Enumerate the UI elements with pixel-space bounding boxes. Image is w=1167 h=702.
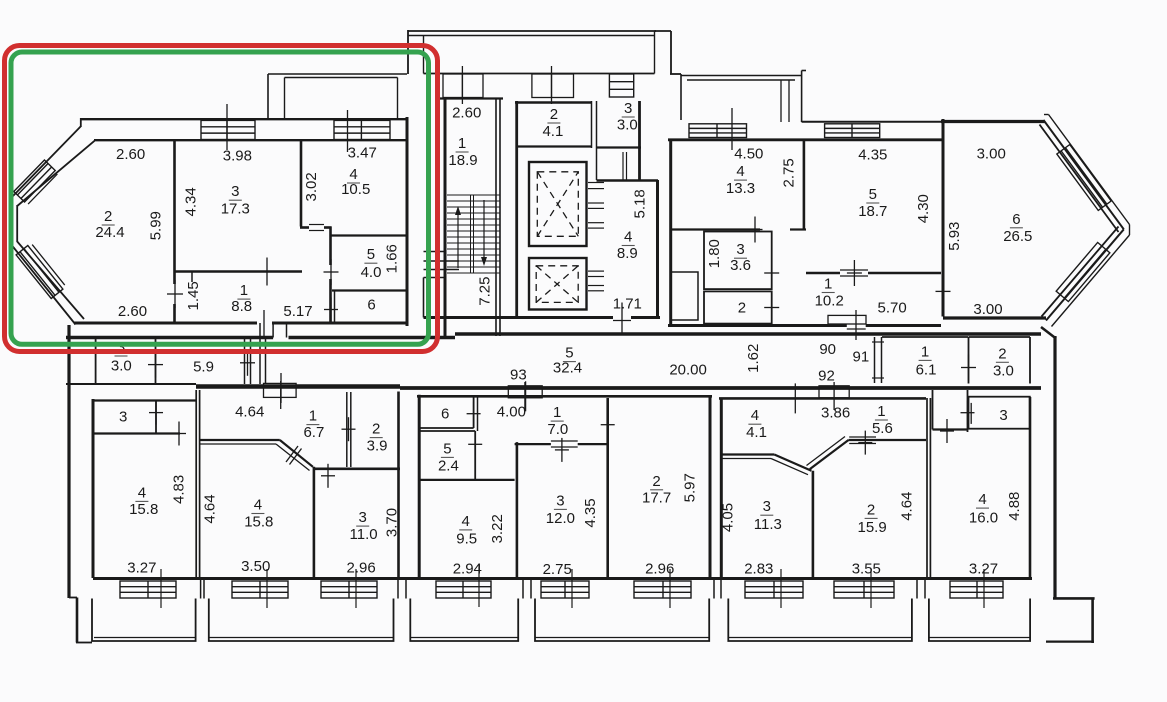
svg-text:4.35: 4.35 <box>858 147 887 164</box>
svg-text:13.3: 13.3 <box>726 180 755 197</box>
window tick 2.83 <box>780 569 782 608</box>
svg-text:4.00: 4.00 <box>497 404 526 421</box>
machine room bottom wall <box>517 145 592 147</box>
svg-text:3.27: 3.27 <box>127 560 156 577</box>
apartment A bay lower outer diagonal <box>12 246 76 325</box>
step wall between apartment B wall and room6 wall <box>942 119 945 142</box>
door tick room 6 B <box>942 278 944 304</box>
apartment A right outer wall <box>406 117 409 326</box>
room 17.7 door tick <box>607 413 609 437</box>
svg-text:5.97: 5.97 <box>681 473 698 502</box>
dim tick room 3.6 door <box>771 260 773 286</box>
svg-text:4.50: 4.50 <box>734 146 763 163</box>
window of room 3 on top wall <box>201 120 255 139</box>
svg-text:2.75: 2.75 <box>543 561 572 578</box>
svg-text:3.22: 3.22 <box>489 514 506 543</box>
svg-text:4.83: 4.83 <box>170 475 187 504</box>
window above stair room 3.0 <box>609 74 633 97</box>
dim tick small room3 <box>946 419 948 443</box>
room 2.4 bottom wall <box>419 479 515 481</box>
corridor top wall right section <box>455 332 1041 335</box>
room 2.4 tick <box>474 432 476 456</box>
window tick 2.96 apt3 <box>669 569 671 608</box>
room 3.0 corridor divider <box>155 339 157 384</box>
elevator hall right wall upper <box>638 101 641 180</box>
roof step to balcony B <box>670 73 681 75</box>
room 6 bay apex outer cap <box>1129 225 1131 236</box>
window tick 3.27 apt5 <box>983 569 985 608</box>
wall between rooms 2 and 3 line a <box>591 101 593 148</box>
apartment 1 | 2 divider wall double <box>195 390 197 578</box>
door tick room 4 B <box>754 217 756 243</box>
balcony divider double line <box>780 80 782 122</box>
svg-text:3.6: 3.6 <box>730 257 751 274</box>
svg-text:5: 5 <box>443 440 451 457</box>
left outer wall below apartment A <box>67 325 70 598</box>
svg-text:5.17: 5.17 <box>283 303 312 320</box>
room 6 bay outer offset upper <box>1049 115 1130 225</box>
entrance porch box 1 <box>443 74 483 98</box>
door tick room 5 <box>330 259 332 285</box>
apartment 3 entry tick <box>525 381 527 411</box>
wall between 12.0 and 17.7 <box>606 398 609 578</box>
window tick 3.50 <box>266 569 268 608</box>
svg-text:3: 3 <box>736 241 744 258</box>
apartment 4 entry tick <box>794 383 796 413</box>
bottom wall of bottom apartments <box>93 577 1032 580</box>
room 6 apt3 right wall <box>473 396 475 428</box>
porch 2 tick <box>551 66 553 104</box>
passage tick <box>967 401 969 425</box>
svg-text:1.45: 1.45 <box>185 281 202 310</box>
apartment A bay left inner edge <box>16 205 18 242</box>
corridor bottom wall apartment2 segment thick <box>196 384 400 389</box>
svg-text:18.9: 18.9 <box>448 152 477 169</box>
svg-text:3.0: 3.0 <box>111 358 132 375</box>
balcony divider walls c <box>522 580 524 599</box>
elevator 2 X diagonal b <box>536 266 578 303</box>
window tick 2.75 <box>571 569 573 608</box>
svg-text:15.8: 15.8 <box>244 514 273 531</box>
roof outline top double line <box>408 30 656 32</box>
room 5 / room 6 divider <box>332 289 406 291</box>
apartment 3 right wall <box>709 396 712 578</box>
svg-text:10.5: 10.5 <box>341 181 370 198</box>
balcony divider walls d <box>713 580 715 599</box>
right outer wall step <box>1053 597 1095 600</box>
window 2.94 apt3 <box>436 581 491 598</box>
room 2 3.0 right wall <box>1029 337 1031 384</box>
window tick 3.27 apt1 <box>160 569 162 608</box>
wall right of room6 apt3 <box>477 396 479 431</box>
door tick room 5 B <box>853 260 855 286</box>
svg-text:3.02: 3.02 <box>303 172 320 201</box>
room 3.0 bottom wall <box>596 146 641 148</box>
stair block door tick <box>621 303 623 333</box>
window 3.55 apt4 <box>834 581 894 598</box>
room 2.4 right wall <box>474 431 476 480</box>
room 2 3.0 top wall <box>969 336 1031 338</box>
apartment B balcony top inner <box>687 79 795 81</box>
svg-text:3: 3 <box>624 100 632 117</box>
svg-text:3.27: 3.27 <box>969 561 998 578</box>
room 12.0 top wall <box>515 443 551 445</box>
apartment 4 top wall <box>719 397 926 400</box>
svg-text:1.66: 1.66 <box>384 244 401 273</box>
window of balcony wall room 4 <box>334 120 390 139</box>
svg-text:1.71: 1.71 <box>613 296 642 313</box>
roof bottom line <box>424 73 655 75</box>
apartment A bay lower inner diagonal <box>17 242 84 320</box>
svg-text:1.80: 1.80 <box>706 239 723 268</box>
svg-text:4.34: 4.34 <box>182 187 199 216</box>
svg-text:8.9: 8.9 <box>617 245 638 262</box>
elevator hall right wall lower <box>656 180 659 319</box>
right outer wall <box>1053 336 1056 598</box>
apartment B left wall <box>669 140 672 327</box>
svg-text:6: 6 <box>1012 211 1020 228</box>
balcony box left edge <box>284 78 286 120</box>
corridor wall below room 4 right part <box>324 226 332 229</box>
svg-text:91: 91 <box>853 348 870 365</box>
svg-text:2: 2 <box>738 300 746 317</box>
balcony box top inner line <box>285 77 398 79</box>
wall between room 3 and room 4 <box>300 140 303 227</box>
svg-text:4: 4 <box>138 484 146 501</box>
svg-text:2: 2 <box>867 501 875 518</box>
svg-text:4: 4 <box>751 407 759 424</box>
porch tick apartment 2 <box>280 381 282 409</box>
apartment A top-left corner jog <box>80 118 82 127</box>
svg-text:5.18: 5.18 <box>632 189 649 218</box>
svg-text:5.9: 5.9 <box>193 358 214 375</box>
svg-text:2.60: 2.60 <box>118 303 147 320</box>
window 3.50 apt2 <box>232 581 288 598</box>
elevator 2 X diagonal a <box>536 266 578 303</box>
svg-text:4.30: 4.30 <box>915 194 932 223</box>
apartment 4 right wall double <box>926 398 928 578</box>
roof outline right segment <box>655 30 672 32</box>
svg-text:2.94: 2.94 <box>453 560 482 577</box>
hallway door slash <box>286 446 298 462</box>
wall between room 2 and room 3 <box>173 140 176 271</box>
svg-text:4.88: 4.88 <box>1006 492 1023 521</box>
corridor top wall left section part b <box>289 336 456 339</box>
svg-text:1: 1 <box>240 282 248 299</box>
corridor bottom wall right segment <box>400 386 1041 390</box>
svg-text:32.4: 32.4 <box>553 360 582 377</box>
svg-text:2.4: 2.4 <box>438 458 459 475</box>
porch box apartment 4 entry <box>819 386 849 398</box>
balcony 4 <box>535 599 709 642</box>
svg-text:7.0: 7.0 <box>547 421 568 438</box>
svg-text:4: 4 <box>254 497 262 514</box>
apartment A entrance door tick <box>263 310 265 336</box>
svg-text:5: 5 <box>869 186 877 203</box>
door tick room 6 <box>330 298 332 322</box>
corridor division wall at 5.9 east side <box>259 336 261 384</box>
svg-text:3: 3 <box>231 183 239 200</box>
apartment 3 top wall <box>417 395 712 398</box>
room 3.9 bottom wall <box>314 467 400 470</box>
highlight green rounded rectangle <box>11 52 429 344</box>
svg-text:4: 4 <box>624 229 632 246</box>
svg-text:4: 4 <box>462 513 470 530</box>
room 5.6 window sill lines <box>849 436 876 438</box>
apartment A bay upper window ladder <box>14 160 55 202</box>
svg-text:3.0: 3.0 <box>993 362 1014 379</box>
svg-text:4.35: 4.35 <box>582 498 599 527</box>
porch tick apartment 4 <box>833 382 835 410</box>
room 5.9 right wall double <box>244 339 246 384</box>
elevator 2 shaft outer <box>529 258 587 310</box>
apartment A bay lower window outer hatch line <box>32 245 65 286</box>
apartment B balcony top outer <box>681 75 802 77</box>
svg-text:2: 2 <box>372 421 380 438</box>
stair stringer <box>470 195 472 273</box>
apartment B top wall <box>668 138 943 141</box>
room 12.0 door tick <box>561 438 563 462</box>
window tick room 4 13.3 <box>731 108 733 150</box>
svg-text:16.0: 16.0 <box>969 510 998 527</box>
porch box apartment 2 entry <box>264 383 297 397</box>
apartment 4 hallway vertical <box>812 471 815 577</box>
svg-text:3.47: 3.47 <box>348 145 377 162</box>
svg-text:4.64: 4.64 <box>201 494 218 523</box>
apartment1 room3 tick <box>155 401 157 425</box>
svg-text:2.96: 2.96 <box>346 560 375 577</box>
svg-text:3.00: 3.00 <box>973 301 1002 318</box>
wall between hall and room 6 <box>942 142 945 317</box>
svg-text:15.8: 15.8 <box>129 501 158 518</box>
svg-text:3: 3 <box>119 409 127 426</box>
stair arrow up <box>457 212 459 268</box>
balcony box right edge <box>397 78 399 120</box>
stair treads <box>447 194 500 196</box>
apartment B bottom wall right of door <box>866 324 941 327</box>
svg-text:3.98: 3.98 <box>223 148 252 165</box>
svg-text:2.60: 2.60 <box>452 105 481 122</box>
stair block bottom wall right of door <box>631 316 660 319</box>
svg-text:3.9: 3.9 <box>367 438 388 455</box>
room 6 apt3 tick <box>473 402 475 426</box>
corridor vertical wall below room5 door <box>329 279 332 323</box>
svg-text:8.8: 8.8 <box>231 298 252 315</box>
svg-text:3.70: 3.70 <box>384 508 401 537</box>
svg-text:1: 1 <box>877 403 885 420</box>
balcony divider walls a <box>200 580 202 599</box>
roof outline left edge <box>407 30 409 74</box>
room 4.1 wall diagonal <box>774 455 811 471</box>
window tick balcony wall <box>347 110 349 152</box>
svg-text:3.86: 3.86 <box>821 405 850 422</box>
svg-text:4.1: 4.1 <box>746 424 767 441</box>
wall stub above apartment A right corner <box>436 74 438 98</box>
balcony 1 bottom left <box>92 599 196 642</box>
door tick room3 to room1 <box>266 258 268 286</box>
room 6 bay upper window ladder <box>1057 145 1111 211</box>
window 2.96 apt2 <box>321 581 377 598</box>
room 6 bay outer offset lower <box>1052 235 1130 327</box>
corridor wall below room 4 left part <box>300 226 309 229</box>
apartment 1 room 3 bottom wall <box>93 432 180 434</box>
apartment 2 hallway wall horizontal <box>199 439 280 441</box>
svg-text:2.83: 2.83 <box>744 561 773 578</box>
room 3.9 left wall <box>346 392 348 467</box>
svg-text:2: 2 <box>998 345 1006 362</box>
svg-text:90: 90 <box>819 341 836 358</box>
svg-text:3: 3 <box>999 407 1007 424</box>
elevator 1 shaft outer <box>529 162 587 246</box>
window tick 2.94 <box>478 565 480 607</box>
room 12.0 left wall <box>516 442 519 578</box>
window 2.96 apt3 <box>634 581 691 598</box>
apartment A bay left outer edge <box>11 196 13 247</box>
balcony 3 <box>410 599 518 642</box>
apartment 2 hallway vertical <box>313 467 316 577</box>
entrance porch box 2 <box>532 74 574 98</box>
svg-text:2.96: 2.96 <box>645 560 674 577</box>
room 2 B box <box>704 291 772 323</box>
window 3.27 apt1 <box>120 581 176 598</box>
apartment1 wall tick horizontal <box>178 422 180 446</box>
apartment B balcony right edge <box>801 71 803 123</box>
svg-text:6: 6 <box>367 296 375 313</box>
room 6 bay lower outer diagonal <box>1046 229 1124 320</box>
balcony 2 <box>209 599 394 642</box>
highlight red rounded rectangle <box>5 46 438 352</box>
apartment 1 top wall <box>93 399 196 401</box>
svg-text:15.9: 15.9 <box>857 519 886 536</box>
door tick room 2 B <box>771 295 773 321</box>
wall below room 4 <box>671 228 760 230</box>
vestibule left wall <box>596 148 598 180</box>
svg-text:9.5: 9.5 <box>456 530 477 547</box>
door tick room 1 to room 2 <box>174 280 176 308</box>
svg-text:2.75: 2.75 <box>780 158 797 187</box>
porch box apartment 3 entry <box>508 386 542 398</box>
corridor top wall left section <box>66 336 273 339</box>
vestibule door tick <box>622 152 624 181</box>
room 3.9 door tick <box>348 417 350 441</box>
left corner outer wall step <box>69 597 77 599</box>
window tick room 3 <box>226 104 228 150</box>
svg-text:10.2: 10.2 <box>815 293 844 310</box>
svg-text:20.00: 20.00 <box>669 362 707 379</box>
apartment A bottom wall right of door <box>272 322 409 325</box>
apartment A bay upper inner diagonal <box>17 141 94 206</box>
svg-text:6.7: 6.7 <box>303 424 324 441</box>
hall wall apartment 5 <box>933 428 969 430</box>
window tick 3.55 <box>870 569 872 608</box>
room 3.9 bottom tick <box>327 464 329 488</box>
elevator 1 cabin dashed <box>537 172 578 237</box>
svg-text:3: 3 <box>556 492 564 509</box>
apartment B entrance porch box <box>828 315 866 324</box>
apartment B bottom wall left of door <box>668 324 847 327</box>
entrance steps rungs <box>424 251 446 253</box>
svg-text:11.3: 11.3 <box>754 516 782 533</box>
apartment 5 right wall <box>1029 397 1032 580</box>
apartment 3 left wall <box>418 395 421 578</box>
svg-text:18.7: 18.7 <box>858 203 887 220</box>
room 6.1 top wall <box>882 336 968 338</box>
svg-text:4: 4 <box>978 491 986 508</box>
wall between room 4 and room 5 <box>803 140 806 229</box>
svg-text:5.99: 5.99 <box>147 211 164 240</box>
room1 nook wall <box>191 272 193 283</box>
svg-text:4.1: 4.1 <box>542 123 563 140</box>
svg-text:5: 5 <box>367 246 375 263</box>
porch tick apartment 3 <box>524 382 526 410</box>
svg-text:2: 2 <box>550 106 558 123</box>
stair room top wall <box>437 97 503 99</box>
svg-text:92: 92 <box>818 367 835 384</box>
room6 top thin outer line <box>802 121 941 123</box>
room 5 top wall <box>330 234 406 236</box>
svg-text:2.60: 2.60 <box>116 146 145 163</box>
room 3 bottom wall <box>174 270 302 273</box>
svg-text:1: 1 <box>824 276 832 293</box>
wall between hall and room 5 horizontal <box>806 272 840 275</box>
machine room 2 top wall <box>515 101 592 104</box>
room 6.1 tick <box>968 355 970 381</box>
svg-text:4: 4 <box>736 163 744 180</box>
svg-text:5.6: 5.6 <box>872 420 893 437</box>
chute room box <box>671 272 698 320</box>
room5 door threshold <box>840 269 868 271</box>
svg-text:5.70: 5.70 <box>877 300 906 317</box>
apartment 2 entry tick <box>280 373 282 403</box>
svg-text:24.4: 24.4 <box>95 224 124 241</box>
stair arrow down <box>483 200 485 260</box>
stair block bottom wall left of door <box>424 316 614 319</box>
room 2.4 top wall <box>419 430 475 432</box>
hall step wall <box>597 179 659 182</box>
room 6 bay lower window ladder <box>1056 242 1110 301</box>
svg-text:1: 1 <box>309 408 317 425</box>
room 3.0 corridor box left wall <box>95 339 97 384</box>
elevator 2 door jamb marks <box>588 270 604 272</box>
svg-text:3.55: 3.55 <box>852 561 881 578</box>
svg-text:3: 3 <box>763 498 771 515</box>
window tick 2.96 apt2 <box>355 569 357 608</box>
balcony divider walls e <box>916 580 918 599</box>
svg-text:17.3: 17.3 <box>221 200 250 217</box>
room 4.1 wall horizontal <box>721 453 774 455</box>
balcony divider walls b <box>397 580 399 599</box>
apartment 1 left wall <box>92 399 95 578</box>
porch 1 divider <box>461 74 463 98</box>
apartment A top wall outer line <box>81 118 407 120</box>
room 6 left wall lower <box>334 291 336 324</box>
apartment 2 hallway diagonal <box>280 440 313 467</box>
svg-text:2: 2 <box>104 208 112 225</box>
apartment A bay upper window outer hatch line <box>28 174 57 204</box>
elevator 2 cabin dashed <box>536 266 578 303</box>
apartment 2 right wall <box>397 392 400 579</box>
wall room2/room1 lower part <box>173 271 176 284</box>
balcony above apartment A outer line <box>268 73 407 75</box>
svg-text:4.05: 4.05 <box>719 503 736 532</box>
room 6 bay upper outer diagonal <box>1044 120 1124 229</box>
svg-text:4.64: 4.64 <box>235 404 264 421</box>
stair room right wall double <box>495 98 497 336</box>
upper outline right of balcony <box>802 70 806 72</box>
porch 1 tick <box>461 66 463 104</box>
svg-text:7.25: 7.25 <box>477 276 494 305</box>
apartment1 room3 right wall <box>155 400 157 433</box>
